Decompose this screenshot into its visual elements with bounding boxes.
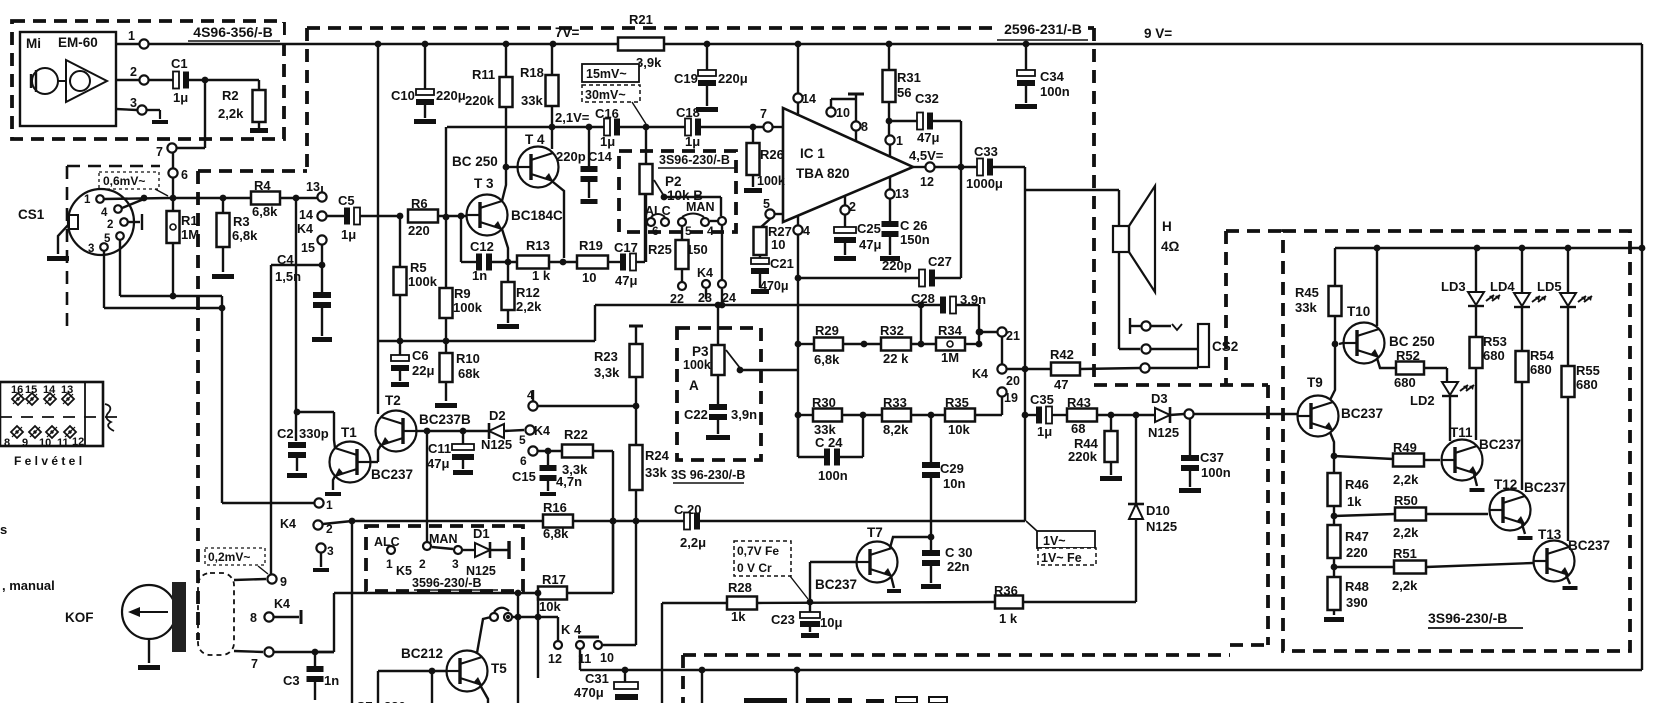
svg-text:10: 10 xyxy=(771,237,785,252)
svg-text:2: 2 xyxy=(107,219,113,231)
svg-text:T 4: T 4 xyxy=(525,132,545,147)
svg-text:R31: R31 xyxy=(897,70,921,85)
svg-text:22n: 22n xyxy=(947,559,969,574)
svg-text:D1: D1 xyxy=(473,526,490,541)
wire T9 emitter xyxy=(1330,432,1334,456)
ground C25 xyxy=(834,256,856,261)
wire to T5 base xyxy=(378,670,447,672)
svg-text:20: 20 xyxy=(1006,374,1020,388)
svg-text:C5: C5 xyxy=(338,193,355,208)
svg-text:CS2: CS2 xyxy=(1212,339,1238,354)
svg-text:C37: C37 xyxy=(1200,450,1224,465)
connector Felvetel xyxy=(0,382,103,446)
svg-text:100k: 100k xyxy=(453,300,483,315)
svg-text:30mV~: 30mV~ xyxy=(585,88,626,102)
svg-text:4: 4 xyxy=(803,224,810,238)
svg-text:R29: R29 xyxy=(815,323,839,338)
head shield xyxy=(172,582,186,652)
svg-text:1V~ Fe: 1V~ Fe xyxy=(1041,551,1082,565)
svg-text:12: 12 xyxy=(72,436,84,448)
svg-text:R21: R21 xyxy=(629,12,653,27)
svg-text:R3: R3 xyxy=(233,214,250,229)
svg-text:1 k: 1 k xyxy=(999,611,1018,626)
ground C10 xyxy=(414,119,436,124)
wire output node xyxy=(1024,167,1026,521)
svg-text:R10: R10 xyxy=(456,351,480,366)
ground R26 xyxy=(744,188,762,193)
svg-text:A: A xyxy=(689,378,699,393)
svg-text:N125: N125 xyxy=(1148,425,1179,440)
svg-text:R23: R23 xyxy=(594,349,618,364)
svg-text:C33: C33 xyxy=(974,144,998,159)
svg-text:47: 47 xyxy=(1054,377,1068,392)
svg-text:R54: R54 xyxy=(1530,348,1555,363)
wire AC line to T7 xyxy=(612,521,614,593)
svg-text:BC237: BC237 xyxy=(1524,480,1566,495)
svg-text:220μ: 220μ xyxy=(436,88,466,103)
svg-text:LD5: LD5 xyxy=(1537,279,1562,294)
svg-text:5: 5 xyxy=(685,224,692,238)
wire T7 collector xyxy=(890,537,931,548)
svg-text:2596-231/-B: 2596-231/-B xyxy=(1004,21,1082,37)
svg-text:C10: C10 xyxy=(391,88,415,103)
svg-text:390: 390 xyxy=(1346,595,1368,610)
svg-text:7: 7 xyxy=(251,657,258,671)
mic capsule symbol xyxy=(32,68,58,94)
svg-text:C32: C32 xyxy=(915,91,939,106)
svg-text:C34: C34 xyxy=(1040,69,1065,84)
svg-text:1V~: 1V~ xyxy=(1043,534,1066,548)
svg-text:1: 1 xyxy=(896,134,903,148)
svg-text:T5: T5 xyxy=(491,661,507,676)
svg-text:ALC: ALC xyxy=(374,535,400,549)
label 15mV box xyxy=(582,64,639,82)
ground R10 xyxy=(435,403,457,408)
wire bottom return xyxy=(662,669,1642,671)
svg-text:C2: C2 xyxy=(277,426,294,441)
svg-text:T 3: T 3 xyxy=(474,176,494,191)
svg-text:BC237: BC237 xyxy=(815,577,857,592)
wire signal drop xyxy=(351,521,353,703)
svg-text:R28: R28 xyxy=(728,580,752,595)
svg-text:680: 680 xyxy=(1530,362,1552,377)
svg-text:8,2k: 8,2k xyxy=(883,422,909,437)
svg-text:3: 3 xyxy=(88,243,94,255)
svg-text:56: 56 xyxy=(897,85,911,100)
wire T4 collector xyxy=(551,127,553,149)
svg-text:15mV~: 15mV~ xyxy=(586,67,627,81)
node rail junctions xyxy=(375,41,382,48)
wire T2 emitter xyxy=(378,445,381,462)
wire T3 collector xyxy=(502,167,506,201)
svg-text:C35: C35 xyxy=(1030,392,1054,407)
svg-text:R2: R2 xyxy=(222,88,239,103)
ground C34 xyxy=(1015,104,1037,109)
label 0,6mV~ xyxy=(99,172,159,189)
svg-text:K5: K5 xyxy=(396,564,412,578)
svg-text:10: 10 xyxy=(836,106,850,120)
speaker H 4ohm xyxy=(1113,226,1129,252)
svg-text:C11: C11 xyxy=(428,441,451,456)
svg-text:T1: T1 xyxy=(341,425,357,440)
ground C22 xyxy=(706,435,730,440)
ground T11 xyxy=(1474,474,1477,486)
svg-text:R25: R25 xyxy=(648,242,672,257)
svg-text:R9: R9 xyxy=(454,286,471,301)
svg-text:C15: C15 xyxy=(512,469,536,484)
module box bottom xyxy=(683,653,1230,657)
wire CS1 pin5 down xyxy=(119,240,121,296)
svg-text:8: 8 xyxy=(861,120,868,134)
label 0,7V box xyxy=(734,541,791,576)
svg-text:BC 250: BC 250 xyxy=(452,154,498,169)
svg-text:0,6mV~: 0,6mV~ xyxy=(103,174,145,188)
node T3 base xyxy=(458,213,465,220)
svg-text:R26: R26 xyxy=(760,147,784,162)
svg-text:2: 2 xyxy=(326,522,333,536)
microphone module Mi EM-60 xyxy=(20,32,116,126)
svg-text:1n: 1n xyxy=(324,673,339,688)
svg-text:3S 96-230/-B: 3S 96-230/-B xyxy=(671,468,745,482)
wire to MAN contact xyxy=(426,431,428,541)
svg-text:R46: R46 xyxy=(1345,477,1369,492)
svg-text:R22: R22 xyxy=(564,427,588,442)
wire T9 collector xyxy=(1330,344,1335,400)
svg-text:330p: 330p xyxy=(299,426,329,441)
svg-text:C27: C27 xyxy=(928,254,952,269)
plug outline xyxy=(198,573,234,655)
svg-text:BC212: BC212 xyxy=(401,646,443,661)
svg-text:22μ: 22μ xyxy=(412,363,434,378)
svg-text:N125: N125 xyxy=(481,437,512,452)
svg-text:150n: 150n xyxy=(900,232,930,247)
svg-text:14: 14 xyxy=(299,208,313,222)
svg-text:470μ: 470μ xyxy=(574,685,604,700)
wire T7 base xyxy=(810,561,857,563)
svg-text:BC237: BC237 xyxy=(1341,406,1383,421)
ground R3 xyxy=(212,274,234,279)
svg-text:3: 3 xyxy=(327,544,334,558)
wire T10 collector xyxy=(1376,248,1378,326)
label 30mV box xyxy=(582,85,640,102)
svg-text:C1: C1 xyxy=(171,56,188,71)
svg-text:3S96-230/-B: 3S96-230/-B xyxy=(659,153,730,167)
svg-text:EM-60: EM-60 xyxy=(58,35,98,50)
svg-text:4,5V=: 4,5V= xyxy=(909,148,944,163)
ground R48 xyxy=(1324,617,1344,622)
svg-text:1μ: 1μ xyxy=(173,90,188,105)
svg-text:47μ: 47μ xyxy=(615,273,637,288)
svg-text:R47: R47 xyxy=(1345,529,1369,544)
ground C11 xyxy=(453,470,473,475)
svg-text:47μ: 47μ xyxy=(427,456,449,471)
svg-text:BC 250: BC 250 xyxy=(1389,334,1435,349)
terminal 22 xyxy=(678,282,686,290)
svg-text:1: 1 xyxy=(128,29,135,43)
ground C19 xyxy=(696,107,718,112)
module box 4S96-356/-B xyxy=(12,21,284,139)
svg-text:220μ: 220μ xyxy=(718,71,748,86)
svg-text:2,2k: 2,2k xyxy=(1392,578,1418,593)
svg-text:2,2k: 2,2k xyxy=(218,106,244,121)
CS1 pin2 stop xyxy=(128,221,140,223)
svg-text:14: 14 xyxy=(802,92,816,106)
svg-text:C12: C12 xyxy=(470,239,494,254)
svg-text:7V=: 7V= xyxy=(555,25,580,40)
node T2 base xyxy=(416,430,427,432)
ground C21 xyxy=(751,289,769,294)
mic amp triangle xyxy=(66,60,107,102)
svg-text:4: 4 xyxy=(101,207,108,219)
svg-text:1M: 1M xyxy=(181,227,199,242)
wire to terminal 9 xyxy=(270,265,272,574)
wire T10 emitter xyxy=(1377,358,1396,368)
svg-text:D10: D10 xyxy=(1146,503,1170,518)
svg-text:K4: K4 xyxy=(297,222,313,236)
svg-text:330n: 330n xyxy=(384,699,414,703)
terminal 9 xyxy=(234,579,266,580)
wire T3 emitter xyxy=(502,229,508,262)
svg-text:BC237: BC237 xyxy=(371,467,413,482)
svg-text:12: 12 xyxy=(548,652,562,666)
svg-text:22 k: 22 k xyxy=(883,351,909,366)
svg-text:R45: R45 xyxy=(1295,285,1319,300)
svg-text:MAN: MAN xyxy=(429,532,457,546)
svg-text:C25: C25 xyxy=(857,221,881,236)
wire terminal 4 to R23/R24 xyxy=(538,405,636,407)
terminal K4 5 xyxy=(525,425,534,434)
svg-text:220: 220 xyxy=(1346,545,1368,560)
svg-text:5: 5 xyxy=(519,433,526,447)
module box 3S96-230/-B (P2 switch) xyxy=(619,151,736,232)
svg-text:2,2μ: 2,2μ xyxy=(680,535,706,550)
wire right border (9V) xyxy=(1641,44,1643,670)
svg-text:R13: R13 xyxy=(526,238,550,253)
svg-text:4Ω: 4Ω xyxy=(1161,239,1180,254)
svg-text:CS1: CS1 xyxy=(18,207,45,222)
CS1 dashed box xyxy=(67,165,160,168)
svg-text:680: 680 xyxy=(1483,348,1505,363)
wire CS1 shield to ground xyxy=(58,224,69,254)
svg-text:47μ: 47μ xyxy=(917,130,939,145)
svg-text:13: 13 xyxy=(306,180,320,194)
svg-text:33k: 33k xyxy=(521,93,543,108)
svg-text:1k: 1k xyxy=(1347,494,1362,509)
svg-text:3: 3 xyxy=(130,96,137,110)
module box P3 3S 96-230/-B xyxy=(677,328,761,460)
svg-text:0 V Cr: 0 V Cr xyxy=(737,561,772,575)
svg-text:33k: 33k xyxy=(645,465,667,480)
svg-text:IC 1: IC 1 xyxy=(800,146,825,161)
svg-text:C28: C28 xyxy=(911,291,935,306)
svg-text:8: 8 xyxy=(4,437,10,449)
svg-text:R51: R51 xyxy=(1393,546,1417,561)
svg-text:2,2k: 2,2k xyxy=(1393,472,1419,487)
wire bias row xyxy=(379,340,595,342)
svg-text:R50: R50 xyxy=(1394,493,1418,508)
svg-text:7: 7 xyxy=(156,145,163,159)
svg-text:8: 8 xyxy=(250,611,257,625)
wire box rail xyxy=(1335,247,1642,249)
svg-text:D3: D3 xyxy=(1151,391,1168,406)
label 1V~ boxes xyxy=(1037,531,1095,548)
svg-text:LD3: LD3 xyxy=(1441,279,1466,294)
wire T5 collector xyxy=(477,617,491,653)
wire CS1 pin3 down xyxy=(103,251,105,308)
svg-text:10k: 10k xyxy=(948,422,970,437)
svg-text:10k: 10k xyxy=(539,599,561,614)
svg-text:LD4: LD4 xyxy=(1490,279,1515,294)
svg-text:1k: 1k xyxy=(731,609,746,624)
P2 wiper xyxy=(654,180,664,196)
op-amp IC1 TBA 820 xyxy=(783,108,913,222)
node main input xyxy=(170,195,177,202)
node R3 xyxy=(220,195,227,202)
ground pin3 xyxy=(147,109,160,111)
node C1/R2 xyxy=(202,77,209,84)
svg-text:100k: 100k xyxy=(757,174,785,188)
svg-text:BC237: BC237 xyxy=(1479,437,1521,452)
svg-text:0,2mV~: 0,2mV~ xyxy=(208,550,250,564)
ground T13 xyxy=(1566,575,1570,584)
svg-text:6,8k: 6,8k xyxy=(814,352,840,367)
svg-text:10n: 10n xyxy=(943,476,965,491)
svg-text:3: 3 xyxy=(452,557,459,571)
svg-text:K 4: K 4 xyxy=(561,622,582,637)
ground R12 xyxy=(497,324,519,329)
pointer to 1V box xyxy=(1026,521,1037,531)
svg-text:10: 10 xyxy=(39,437,51,449)
pin 8 bar xyxy=(848,93,864,96)
svg-text:R17: R17 xyxy=(542,572,566,587)
svg-text:1: 1 xyxy=(326,498,333,512)
switch contacts T5 collector xyxy=(490,613,498,621)
wire feedback row xyxy=(594,305,596,341)
svg-text:s: s xyxy=(0,522,7,537)
svg-text:3,9k: 3,9k xyxy=(636,55,662,70)
svg-text:ALC: ALC xyxy=(645,204,671,218)
ground C4 xyxy=(312,337,332,342)
svg-text:C31: C31 xyxy=(585,671,609,686)
svg-text:C4: C4 xyxy=(277,252,294,267)
svg-text:10: 10 xyxy=(600,651,614,665)
wire CS1 pin4 xyxy=(122,199,144,208)
svg-text:100k: 100k xyxy=(408,274,438,289)
svg-text:1000μ: 1000μ xyxy=(966,176,1003,191)
svg-text:P2: P2 xyxy=(665,174,682,189)
svg-text:C 30: C 30 xyxy=(945,545,972,560)
svg-text:11: 11 xyxy=(57,437,69,449)
svg-text:3,9n: 3,9n xyxy=(731,407,757,422)
svg-text:T9: T9 xyxy=(1307,375,1323,390)
ground KOF xyxy=(148,639,150,663)
wire to K4 12 xyxy=(557,617,559,640)
svg-text:C22: C22 xyxy=(684,407,708,422)
svg-text:47μ: 47μ xyxy=(859,237,881,252)
svg-text:9 V=: 9 V= xyxy=(1144,26,1172,41)
wire T4 emitter xyxy=(553,182,564,258)
wire node to pin7 xyxy=(204,80,206,148)
svg-text:T7: T7 xyxy=(867,525,883,540)
svg-text:R16: R16 xyxy=(543,500,567,515)
label 0,2mV~ xyxy=(205,548,265,565)
ground C23 xyxy=(801,633,819,638)
svg-text:R55: R55 xyxy=(1576,363,1600,378)
svg-text:H: H xyxy=(1162,219,1172,234)
wire R28 line xyxy=(662,602,727,604)
svg-text:K4: K4 xyxy=(534,424,550,438)
svg-text:33k: 33k xyxy=(1295,300,1317,315)
module box K5 3596-230/-B xyxy=(366,526,523,591)
svg-text:7: 7 xyxy=(760,107,767,121)
svg-text:10μ: 10μ xyxy=(820,615,842,630)
svg-text:220: 220 xyxy=(408,223,430,238)
svg-text:0,7V Fe: 0,7V Fe xyxy=(737,544,779,558)
jack contacts xyxy=(1141,321,1150,330)
wire +7V/9V top rail xyxy=(149,43,1642,45)
svg-text:1 k: 1 k xyxy=(532,268,551,283)
svg-text:3,3k: 3,3k xyxy=(594,365,620,380)
svg-text:680: 680 xyxy=(1394,375,1416,390)
ground C37 xyxy=(1179,488,1201,493)
svg-text:R32: R32 xyxy=(880,323,904,338)
svg-text:C 24: C 24 xyxy=(815,435,843,450)
svg-text:68k: 68k xyxy=(458,366,480,381)
svg-text:K4: K4 xyxy=(280,517,296,531)
svg-text:2: 2 xyxy=(419,557,426,571)
svg-text:9: 9 xyxy=(280,575,287,589)
svg-text:220p: 220p xyxy=(882,258,912,273)
svg-text:220p: 220p xyxy=(556,149,586,164)
svg-text:C3: C3 xyxy=(283,673,300,688)
svg-text:C14: C14 xyxy=(588,149,613,164)
svg-text:100n: 100n xyxy=(1201,465,1231,480)
module box 2596-231/-B (dashed outline) xyxy=(307,26,995,30)
ground R44 xyxy=(1100,476,1122,481)
svg-text:C7: C7 xyxy=(356,699,373,703)
svg-text:KOF: KOF xyxy=(65,610,94,625)
svg-text:P3: P3 xyxy=(692,344,709,359)
svg-text:1: 1 xyxy=(84,194,91,206)
wire T5 emitter down xyxy=(480,685,488,703)
svg-text:6: 6 xyxy=(181,168,188,182)
svg-text:N125: N125 xyxy=(1146,519,1177,534)
ground C26 xyxy=(880,256,900,261)
svg-text:21: 21 xyxy=(1006,329,1020,343)
svg-text:2,2k: 2,2k xyxy=(1393,525,1419,540)
svg-text:C6: C6 xyxy=(412,348,429,363)
svg-text:R1: R1 xyxy=(181,213,198,228)
svg-text:R11: R11 xyxy=(472,67,495,82)
ground C30 xyxy=(921,584,941,589)
wire 15 to node xyxy=(321,245,323,265)
svg-text:BC237B: BC237B xyxy=(419,412,471,427)
wire node down to T1 base xyxy=(295,198,297,441)
connector CS2 xyxy=(1198,324,1209,367)
svg-text:Mi: Mi xyxy=(26,36,41,51)
svg-text:3,3k: 3,3k xyxy=(562,462,588,477)
svg-text:TBA 820: TBA 820 xyxy=(796,166,850,181)
svg-text:12: 12 xyxy=(920,175,934,189)
svg-text:C 26: C 26 xyxy=(900,218,927,233)
svg-text:T13: T13 xyxy=(1538,527,1562,542)
svg-text:R19: R19 xyxy=(579,238,603,253)
wire main signal xyxy=(323,521,352,524)
svg-text:13: 13 xyxy=(895,187,909,201)
svg-text:D2: D2 xyxy=(489,408,506,423)
lower module component stubs xyxy=(744,698,787,703)
svg-text:100n: 100n xyxy=(1040,84,1070,99)
